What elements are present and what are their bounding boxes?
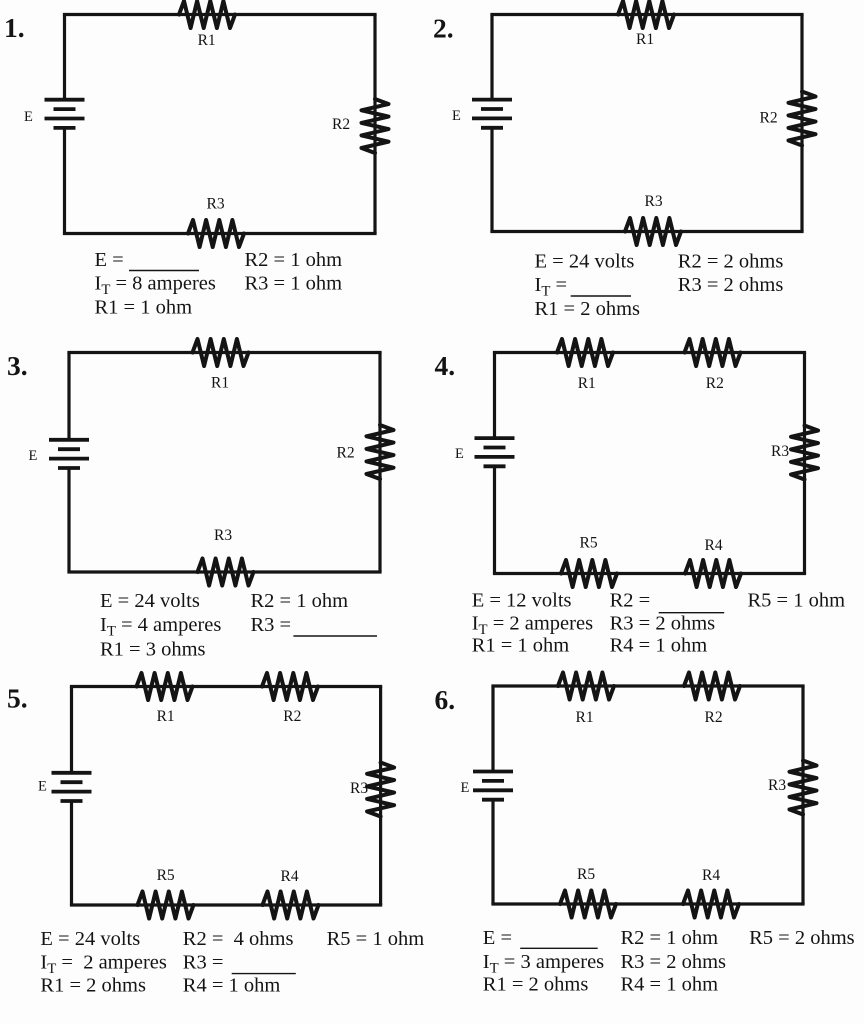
wire: circuit 5 right bbox=[379, 687, 382, 906]
svg-text:R5 = 1 ohm: R5 = 1 ohm bbox=[327, 928, 425, 950]
svg-text:R4 = 1 ohm: R4 = 1 ohm bbox=[621, 974, 719, 996]
blank answer line (circuit 5) bbox=[232, 973, 296, 975]
svg-text:R1: R1 bbox=[578, 375, 596, 392]
svg-text:R2 = 1 ohm: R2 = 1 ohm bbox=[621, 927, 719, 949]
svg-text:R3 = 1 ohm: R3 = 1 ohm bbox=[245, 273, 343, 295]
svg-text:R3 =: R3 = bbox=[183, 952, 224, 974]
svg-text:4.: 4. bbox=[435, 350, 456, 381]
svg-text:2.: 2. bbox=[433, 13, 454, 44]
blank answer line (circuit 2) bbox=[571, 295, 631, 297]
wire: circuit 2 left lower bbox=[490, 128, 493, 232]
svg-text:R2: R2 bbox=[705, 709, 723, 726]
wire: circuit 6 left upper bbox=[491, 686, 494, 772]
svg-text:R1 = 2 ohms: R1 = 2 ohms bbox=[483, 974, 589, 996]
svg-text:R1 = 1 ohm: R1 = 1 ohm bbox=[472, 635, 570, 657]
resistor R2 (circuit 4) bbox=[685, 339, 741, 366]
svg-text:R1 = 2 ohms: R1 = 2 ohms bbox=[535, 298, 641, 320]
svg-text:E = 24 volts: E = 24 volts bbox=[40, 928, 140, 950]
wire: circuit 3 right bbox=[378, 353, 381, 573]
battery E (circuit 3) bbox=[49, 438, 89, 442]
svg-text:E = 24 volts: E = 24 volts bbox=[535, 251, 635, 273]
svg-text:R2 = 1 ohm: R2 = 1 ohm bbox=[251, 590, 349, 612]
svg-text:R3 = 2 ohms: R3 = 2 ohms bbox=[621, 951, 727, 973]
battery E (circuit 2) bbox=[472, 98, 512, 102]
resistor R2 (circuit 2) bbox=[789, 92, 816, 146]
resistor R5 (circuit 4) bbox=[561, 560, 617, 587]
svg-text:R4: R4 bbox=[702, 867, 720, 884]
wire: circuit 6 right bbox=[801, 686, 804, 904]
svg-text:E: E bbox=[461, 780, 470, 796]
svg-text:E: E bbox=[452, 108, 461, 124]
wire: circuit 1 top bbox=[63, 13, 377, 16]
resistor R3 (circuit 2) bbox=[625, 218, 681, 245]
svg-text:R1: R1 bbox=[198, 32, 216, 49]
wire: circuit 1 bottom bbox=[63, 232, 377, 235]
wire: circuit 4 bottom bbox=[493, 572, 806, 575]
resistor R5 (circuit 5) bbox=[138, 892, 194, 919]
svg-text:R5 = 2 ohms: R5 = 2 ohms bbox=[749, 927, 855, 949]
wire: circuit 3 top bbox=[67, 351, 381, 354]
svg-text:R2: R2 bbox=[332, 116, 350, 133]
svg-text:R2 = 2 ohms: R2 = 2 ohms bbox=[678, 251, 784, 273]
svg-text:E: E bbox=[455, 446, 464, 462]
svg-text:R3: R3 bbox=[768, 777, 786, 794]
svg-text:1.: 1. bbox=[4, 12, 25, 43]
svg-text:R5: R5 bbox=[580, 535, 598, 552]
resistor R1 (circuit 3) bbox=[193, 339, 249, 366]
resistor R3 (circuit 4) bbox=[791, 426, 818, 480]
wire: circuit 3 bottom bbox=[67, 570, 381, 573]
wire: circuit 4 left upper bbox=[493, 353, 496, 439]
svg-text:R3 =: R3 = bbox=[251, 614, 292, 636]
svg-text:R1 = 3 ohms: R1 = 3 ohms bbox=[100, 639, 206, 661]
svg-text:R2: R2 bbox=[283, 708, 301, 725]
svg-text:R3 = 2 ohms: R3 = 2 ohms bbox=[610, 613, 716, 635]
wire: circuit 2 top bbox=[490, 13, 803, 16]
resistor R1 (circuit 4) bbox=[557, 339, 613, 366]
wire: circuit 6 top bbox=[491, 684, 804, 687]
resistor R1 (circuit 5) bbox=[137, 673, 193, 700]
svg-text:3.: 3. bbox=[7, 350, 28, 381]
svg-text:R5 = 1 ohm: R5 = 1 ohm bbox=[748, 590, 846, 612]
wire: circuit 4 left lower bbox=[493, 466, 496, 573]
resistor R5 (circuit 6) bbox=[560, 891, 616, 918]
resistor R4 (circuit 5) bbox=[263, 892, 319, 919]
resistor R2 (circuit 1) bbox=[362, 99, 389, 153]
svg-text:6.: 6. bbox=[435, 684, 456, 715]
resistor R4 (circuit 4) bbox=[685, 560, 741, 587]
svg-text:R3 = 2 ohms: R3 = 2 ohms bbox=[678, 274, 784, 296]
svg-text:R3: R3 bbox=[645, 193, 663, 210]
resistor R3 (circuit 6) bbox=[790, 761, 817, 815]
svg-text:R2 = 1 ohm: R2 = 1 ohm bbox=[245, 249, 343, 271]
svg-text:IT = 2 amperes: IT = 2 amperes bbox=[40, 952, 167, 978]
wire: circuit 4 right bbox=[803, 353, 806, 574]
resistor R1 (circuit 6) bbox=[558, 673, 614, 700]
svg-text:R4: R4 bbox=[705, 537, 723, 554]
resistor R3 (circuit 3) bbox=[198, 559, 254, 586]
wire: circuit 6 left lower bbox=[491, 800, 494, 904]
svg-text:R5: R5 bbox=[157, 867, 175, 884]
svg-text:IT = 4 amperes: IT = 4 amperes bbox=[100, 614, 221, 640]
wire: circuit 5 left lower bbox=[70, 801, 73, 905]
wire: circuit 5 left upper bbox=[70, 687, 73, 773]
svg-text:R2: R2 bbox=[760, 110, 778, 127]
wire: circuit 2 left upper bbox=[490, 15, 493, 100]
svg-text:R3: R3 bbox=[207, 196, 225, 213]
svg-text:R2: R2 bbox=[337, 445, 355, 462]
resistor R2 (circuit 3) bbox=[367, 425, 394, 479]
wire: circuit 5 top bbox=[70, 685, 382, 688]
svg-text:E: E bbox=[24, 109, 33, 125]
blank answer line (circuit 3) bbox=[293, 635, 377, 637]
wire: circuit 4 top bbox=[493, 351, 806, 354]
svg-text:R2 = 4 ohms: R2 = 4 ohms bbox=[183, 928, 294, 950]
resistor R3 (circuit 5) bbox=[367, 763, 394, 817]
resistor R4 (circuit 6) bbox=[683, 891, 739, 918]
svg-text:R2 =: R2 = bbox=[610, 590, 651, 612]
svg-text:R3: R3 bbox=[350, 780, 368, 797]
svg-text:E =: E = bbox=[483, 927, 512, 949]
svg-text:E = 24 volts: E = 24 volts bbox=[100, 590, 200, 612]
resistor R2 (circuit 5) bbox=[262, 673, 318, 700]
blank answer line (circuit 4) bbox=[659, 612, 725, 614]
battery E (circuit 1) bbox=[45, 98, 85, 102]
svg-text:R1: R1 bbox=[211, 375, 229, 392]
wire: circuit 1 left upper bbox=[63, 15, 66, 100]
wire: circuit 1 right bbox=[373, 15, 376, 234]
svg-text:R2: R2 bbox=[706, 375, 724, 392]
svg-text:IT =: IT = bbox=[535, 274, 568, 300]
battery E (circuit 6) bbox=[473, 770, 513, 774]
svg-text:E: E bbox=[38, 779, 47, 795]
svg-text:R3: R3 bbox=[771, 443, 789, 460]
wire: circuit 2 right bbox=[800, 15, 803, 232]
svg-text:R3: R3 bbox=[214, 527, 232, 544]
svg-text:E: E bbox=[29, 448, 38, 464]
svg-text:R1: R1 bbox=[157, 708, 175, 725]
wire: circuit 3 left lower bbox=[67, 468, 70, 572]
battery E (circuit 4) bbox=[475, 436, 515, 440]
battery E (circuit 5) bbox=[52, 771, 92, 775]
blank answer line (circuit 1) bbox=[129, 270, 199, 272]
svg-text:E =: E = bbox=[95, 249, 124, 271]
svg-text:R4 = 1 ohm: R4 = 1 ohm bbox=[610, 635, 708, 657]
resistor R1 (circuit 2) bbox=[618, 1, 674, 28]
svg-text:R4 = 1 ohm: R4 = 1 ohm bbox=[183, 975, 281, 997]
svg-text:R1 = 2 ohms: R1 = 2 ohms bbox=[40, 975, 146, 997]
resistor R3 (circuit 1) bbox=[188, 220, 244, 247]
svg-text:R4: R4 bbox=[281, 868, 299, 885]
svg-text:5.: 5. bbox=[7, 683, 28, 714]
svg-text:R1 = 1 ohm: R1 = 1 ohm bbox=[95, 297, 193, 319]
blank answer line (circuit 6) bbox=[520, 947, 598, 949]
svg-text:R1: R1 bbox=[636, 31, 654, 48]
svg-text:E = 12 volts: E = 12 volts bbox=[472, 590, 572, 612]
svg-text:IT = 8 amperes: IT = 8 amperes bbox=[95, 273, 216, 299]
svg-text:R1: R1 bbox=[576, 709, 594, 726]
resistor R2 (circuit 6) bbox=[684, 673, 740, 700]
wire: circuit 2 bottom bbox=[490, 230, 803, 233]
resistor R1 (circuit 1) bbox=[179, 1, 235, 28]
wire: circuit 5 bottom bbox=[70, 903, 382, 906]
wire: circuit 3 left upper bbox=[67, 353, 70, 440]
svg-text:R5: R5 bbox=[577, 866, 595, 883]
wire: circuit 1 left lower bbox=[63, 128, 66, 234]
wire: circuit 6 bottom bbox=[491, 902, 804, 905]
